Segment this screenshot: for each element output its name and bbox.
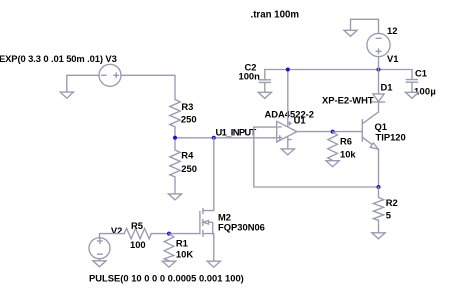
voltage source V2 — [89, 238, 110, 259]
svg-text:100n: 100n — [239, 70, 261, 81]
svg-text:FQP30N06: FQP30N06 — [218, 222, 265, 233]
svg-text:10K: 10K — [176, 248, 193, 259]
ground (V1) — [344, 30, 357, 36]
voltage source V1 — [367, 33, 390, 56]
ground (M2 source) — [207, 261, 220, 267]
svg-text:100µ: 100µ — [414, 85, 436, 96]
svg-text:D1: D1 — [381, 82, 393, 93]
svg-text:R6: R6 — [340, 135, 352, 146]
svg-text:V1: V1 — [387, 53, 398, 64]
ground (V2) — [93, 261, 106, 267]
wire V3 right to R3 — [121, 75, 175, 99]
svg-text:C1: C1 — [415, 68, 427, 79]
resistor R5 — [124, 228, 151, 238]
wire inverting input — [254, 126, 277, 128]
svg-text:5: 5 — [386, 209, 391, 220]
ground (V3) — [60, 92, 73, 98]
svg-text:U1: U1 — [294, 115, 306, 126]
ground (op-amp) — [281, 149, 294, 155]
ground (R6) — [326, 161, 339, 167]
wire op-amp V- to ground — [287, 137, 289, 149]
node junction rail/op-amp — [286, 68, 290, 72]
svg-text:R5: R5 — [131, 220, 143, 231]
wire Q1 emitter down — [378, 149, 380, 187]
node junction R5/R1/gate — [167, 232, 171, 236]
wire V3 left — [67, 75, 99, 92]
svg-text:R3: R3 — [181, 101, 193, 112]
svg-text:12: 12 — [387, 25, 397, 36]
svg-text:250: 250 — [181, 113, 197, 124]
ground (C2) — [258, 92, 271, 98]
node junction rail/V1/D1 — [377, 68, 381, 72]
wire rail to D1 — [378, 70, 380, 94]
svg-text:100: 100 — [130, 239, 146, 250]
node junction emitter/R2/feedback — [377, 185, 381, 189]
svg-text:R1: R1 — [176, 238, 188, 249]
resistor R4 — [170, 138, 180, 194]
wire R5 to gate — [151, 233, 200, 235]
svg-text:EXP(0 3.3 0 .01 50m .01) V3: EXP(0 3.3 0 .01 50m .01) V3 — [0, 53, 117, 64]
svg-text:250: 250 — [181, 163, 197, 174]
node junction R3/R4 — [173, 136, 177, 140]
wire op-amp V+ supply — [287, 70, 289, 127]
mosfet M2 FQP30N06 — [203, 138, 214, 211]
wire op-amp output to Q1 base — [297, 131, 362, 133]
svg-text:U1_INPUT: U1_INPUT — [216, 127, 257, 138]
ground (R4) — [168, 194, 181, 200]
op-amp U1 ADA4522-2 — [277, 121, 297, 142]
wire V2 top — [100, 234, 125, 238]
wire V1 top — [351, 19, 379, 33]
resistor R2 — [373, 187, 383, 233]
svg-text:TIP120: TIP120 — [376, 131, 406, 142]
wire D1 to Q1 collector — [378, 102, 380, 112]
svg-text:10k: 10k — [340, 149, 356, 160]
diode D1 — [373, 94, 384, 102]
transistor Q1 TIP120 — [362, 112, 378, 149]
ground (C1) — [405, 92, 418, 98]
resistor R3 — [170, 100, 180, 138]
capacitor C2 — [259, 70, 270, 93]
resistor R6 — [328, 132, 338, 161]
svg-text:XP-E2-WHT: XP-E2-WHT — [322, 95, 374, 106]
svg-text:R2: R2 — [386, 197, 398, 208]
node junction drain branch — [212, 136, 216, 140]
svg-text:.tran 100m: .tran 100m — [251, 10, 300, 21]
voltage source V3 — [99, 64, 121, 86]
svg-text:PULSE(0 10 0 0 0 0.0005 0.001: PULSE(0 10 0 0 0 0.0005 0.001 100) — [89, 273, 244, 284]
ground (R2) — [372, 233, 385, 239]
wire U1_INPUT node to op-amp +input — [175, 137, 277, 139]
svg-text:R4: R4 — [181, 150, 194, 161]
svg-text:ADA4522-2: ADA4522-2 — [265, 109, 315, 120]
wire feedback loop — [254, 127, 379, 187]
ground (R1) — [162, 261, 175, 267]
node junction R6 — [331, 130, 335, 134]
capacitor C1 — [406, 70, 417, 93]
wire +12 rail — [265, 69, 412, 71]
resistor R1 — [164, 234, 174, 261]
wire V1 bottom — [378, 57, 380, 70]
